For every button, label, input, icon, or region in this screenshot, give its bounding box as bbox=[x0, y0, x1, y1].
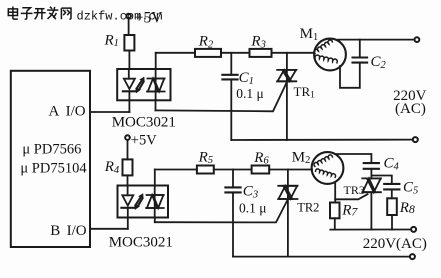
svg-text:C1: C1 bbox=[239, 70, 254, 87]
svg-text:MOC3021: MOC3021 bbox=[109, 235, 173, 251]
svg-text:I/O: I/O bbox=[67, 223, 87, 239]
svg-text:B: B bbox=[50, 223, 60, 239]
svg-text:R2: R2 bbox=[198, 34, 214, 51]
svg-text:TR3: TR3 bbox=[344, 183, 365, 197]
svg-text:M2: M2 bbox=[292, 149, 311, 166]
svg-text:TR1: TR1 bbox=[294, 84, 316, 101]
svg-text:MOC3021: MOC3021 bbox=[112, 114, 176, 130]
svg-text:R6: R6 bbox=[253, 150, 269, 167]
svg-text:C4: C4 bbox=[384, 156, 400, 173]
svg-text:0.1 μ: 0.1 μ bbox=[236, 86, 264, 101]
svg-text:R4: R4 bbox=[104, 159, 120, 176]
svg-text:TR2: TR2 bbox=[297, 200, 319, 214]
svg-text:220V(AC): 220V(AC) bbox=[363, 236, 427, 252]
svg-text:(AC): (AC) bbox=[395, 101, 426, 117]
svg-text:R3: R3 bbox=[250, 34, 265, 51]
svg-text:I/O: I/O bbox=[66, 103, 86, 119]
svg-text:R7: R7 bbox=[341, 203, 358, 219]
svg-text:+5V: +5V bbox=[131, 133, 157, 149]
svg-text:dzkfw.com.cn: dzkfw.com.cn bbox=[77, 9, 163, 23]
svg-text:R1: R1 bbox=[104, 32, 119, 49]
svg-text:A: A bbox=[49, 103, 60, 119]
svg-text:R8: R8 bbox=[399, 200, 415, 216]
svg-text:R5: R5 bbox=[198, 149, 213, 166]
svg-text:0.1 μ: 0.1 μ bbox=[239, 200, 267, 215]
svg-text:C2: C2 bbox=[371, 54, 387, 71]
svg-text:C3: C3 bbox=[243, 184, 258, 201]
svg-text:μ PD75104: μ PD75104 bbox=[20, 161, 87, 177]
svg-text:μ PD7566: μ PD7566 bbox=[22, 142, 81, 158]
svg-text:M1: M1 bbox=[300, 26, 319, 43]
svg-text:C5: C5 bbox=[403, 180, 418, 197]
